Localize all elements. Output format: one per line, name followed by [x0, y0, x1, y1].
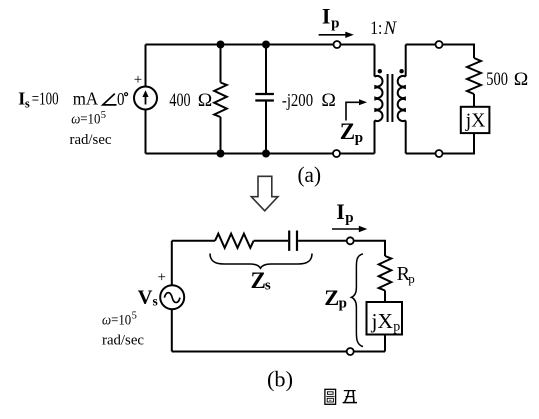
svg-text:p: p: [355, 130, 363, 146]
svg-text:Z: Z: [251, 268, 266, 293]
svg-text:mA: mA: [73, 89, 99, 109]
svg-text:s: s: [153, 294, 158, 309]
svg-text:s: s: [265, 278, 271, 294]
svg-text:s: s: [25, 96, 30, 110]
svg-text:p: p: [345, 210, 353, 226]
svg-text:(b): (b): [267, 366, 293, 391]
svg-text:500: 500: [486, 70, 508, 90]
svg-text:1:: 1:: [370, 19, 382, 39]
svg-text:(a): (a): [298, 162, 322, 187]
svg-text:5: 5: [101, 110, 106, 121]
svg-text:p: p: [408, 271, 415, 286]
svg-text:400: 400: [169, 91, 190, 111]
svg-text:I: I: [336, 199, 345, 224]
svg-text:jX: jX: [465, 111, 486, 132]
svg-text:ω=10: ω=10: [71, 112, 100, 128]
svg-text:rad/sec: rad/sec: [70, 132, 112, 148]
svg-text:p: p: [339, 296, 347, 312]
svg-text:Z: Z: [324, 285, 339, 310]
svg-text:Z: Z: [340, 119, 355, 144]
svg-text:5: 5: [132, 311, 137, 322]
svg-text:p: p: [331, 16, 339, 32]
svg-text:-j200: -j200: [282, 90, 313, 110]
svg-text:I: I: [322, 4, 331, 29]
svg-text:p: p: [393, 320, 400, 335]
svg-text:Ω: Ω: [514, 70, 529, 90]
svg-text:0: 0: [117, 89, 125, 109]
svg-text:+: +: [134, 72, 142, 88]
svg-text:=100: =100: [32, 89, 59, 109]
svg-text:jX: jX: [371, 309, 394, 333]
svg-text:N: N: [383, 19, 398, 39]
svg-text:Ω: Ω: [198, 91, 213, 111]
svg-text:+: +: [158, 270, 166, 286]
svg-text:rad/sec: rad/sec: [102, 332, 144, 348]
svg-text:Ω: Ω: [321, 91, 336, 111]
svg-text:ω=10: ω=10: [102, 312, 131, 328]
svg-text:V: V: [138, 287, 153, 309]
